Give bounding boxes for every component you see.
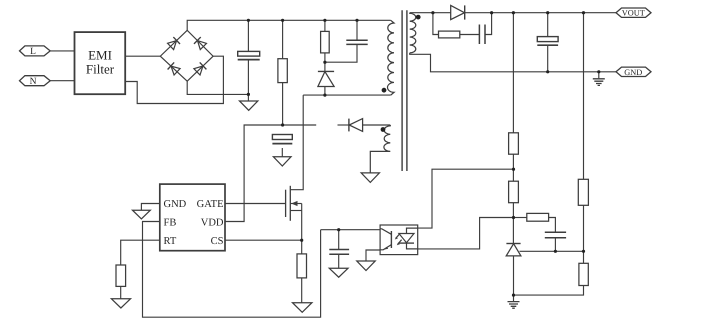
svg-text:GATE: GATE xyxy=(197,199,224,210)
svg-text:GND: GND xyxy=(624,68,642,77)
svg-text:Filter: Filter xyxy=(86,62,115,77)
svg-text:EMI: EMI xyxy=(88,48,112,63)
svg-text:N: N xyxy=(30,77,37,87)
svg-text:FB: FB xyxy=(164,217,177,228)
svg-text:GND: GND xyxy=(164,199,187,210)
svg-text:L: L xyxy=(30,47,36,57)
svg-text:CS: CS xyxy=(211,236,224,247)
svg-text:RT: RT xyxy=(164,236,177,247)
svg-text:VDD: VDD xyxy=(201,217,224,228)
svg-text:VOUT: VOUT xyxy=(622,9,645,18)
